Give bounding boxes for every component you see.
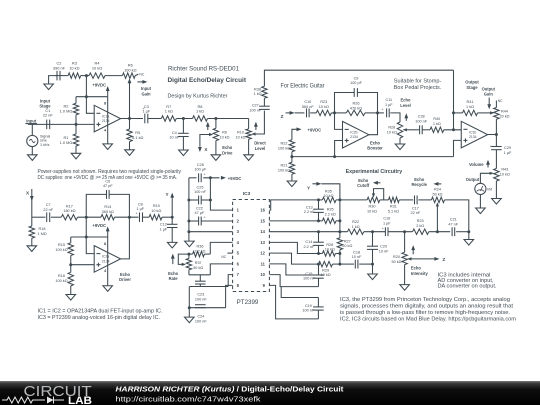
wire C7-R17 — [51, 216, 61, 218]
capacitor C21 — [451, 227, 453, 236]
svg-text:Recycle: Recycle — [411, 182, 427, 187]
potentiometer R9 Echo Drive — [215, 119, 217, 129]
svg-text:C9: C9 — [354, 76, 359, 80]
svg-text:1 µF: 1 µF — [504, 151, 512, 155]
svg-text:C27: C27 — [252, 104, 259, 108]
capacitor C16 — [384, 227, 386, 236]
svg-text:5.1 kΩ: 5.1 kΩ — [388, 210, 399, 214]
resistor R27 — [337, 238, 342, 250]
node C22 left — [187, 220, 190, 223]
svg-text:R30: R30 — [369, 205, 376, 209]
resistor R8 — [193, 116, 208, 121]
supply +9VDC echo booster — [292, 129, 297, 140]
op-amp IC1a — [94, 105, 120, 132]
wire IC1b out — [488, 134, 497, 136]
svg-text:Volume: Volume — [469, 162, 484, 167]
svg-text:100 kΩ: 100 kΩ — [55, 248, 67, 252]
svg-text:C26: C26 — [197, 163, 204, 167]
supply +9VDC IC1a — [107, 89, 109, 97]
wire IC2a minus feed — [86, 217, 94, 253]
potentiometer R37 Echo Rate — [186, 258, 191, 269]
wire R33-nodeA — [331, 112, 346, 114]
svg-text:C23: C23 — [197, 293, 204, 297]
svg-text:R22: R22 — [352, 220, 359, 224]
node IC2b plus junction — [333, 155, 336, 158]
capacitor C3 — [144, 114, 146, 124]
svg-text:1 µF: 1 µF — [383, 221, 391, 225]
svg-text:47 µF: 47 µF — [195, 211, 205, 215]
svg-text:R40: R40 — [433, 117, 440, 121]
svg-text:390 nF: 390 nF — [53, 66, 66, 71]
svg-text:180 kΩ: 180 kΩ — [63, 209, 75, 213]
resistor R4 — [89, 73, 105, 78]
svg-text:+: + — [381, 107, 383, 111]
wire R8-R10 — [208, 118, 249, 120]
annotation Echo Cutoff arrow — [375, 182, 380, 184]
svg-text:10 kΩ: 10 kΩ — [319, 105, 329, 109]
svg-text:13: 13 — [260, 240, 265, 245]
svg-text:R26: R26 — [353, 102, 360, 106]
svg-text:R36: R36 — [197, 245, 204, 249]
svg-text:+: + — [490, 144, 492, 148]
wire Z to C10 — [295, 112, 305, 114]
svg-text:Y: Y — [307, 185, 310, 190]
ground C23/C24 — [185, 317, 195, 323]
svg-text:Stage: Stage — [466, 85, 478, 90]
svg-text:Digital Echo/Delay Circuit: Digital Echo/Delay Circuit — [168, 77, 247, 84]
ground R21 — [287, 181, 297, 187]
resistor R29 — [319, 261, 333, 266]
voltmeter VM — [475, 183, 486, 194]
node IC1b minus junction — [452, 128, 455, 131]
wire C22 stubs — [189, 220, 199, 222]
wire railB 200-232 — [339, 200, 341, 238]
svg-text:10: 10 — [260, 272, 265, 277]
wire IC1a out — [121, 118, 143, 120]
wire pin12 hook — [269, 253, 318, 264]
svg-text:10 kΩ: 10 kΩ — [387, 131, 397, 135]
svg-text:C29: C29 — [504, 146, 511, 150]
node railA row221 — [317, 219, 320, 222]
resistor R16 — [68, 272, 73, 286]
svg-text:1 µF: 1 µF — [160, 227, 168, 231]
wire R41 to R44 wiper — [478, 112, 492, 114]
wire R37 bottom row — [189, 274, 210, 276]
wire IC2b out — [369, 113, 378, 135]
node C20 bottom — [371, 263, 374, 266]
svg-text:C18: C18 — [353, 250, 360, 254]
svg-text:10 nF: 10 nF — [169, 136, 179, 140]
ground R5 — [125, 150, 135, 156]
op-amp IC2a — [94, 246, 120, 273]
node railB row232 — [338, 230, 341, 233]
wire C27-R38 — [263, 98, 265, 106]
capacitor C23 — [199, 275, 201, 281]
footer bar — [0, 381, 540, 405]
svg-text:Experimental Circuitry: Experimental Circuitry — [346, 169, 403, 175]
svg-text:1 kΩ: 1 kΩ — [433, 122, 441, 126]
svg-text:Driver: Driver — [119, 277, 131, 282]
svg-text:C10: C10 — [304, 100, 311, 104]
svg-text:NC: NC — [498, 99, 503, 103]
svg-text:10 kΩ: 10 kΩ — [219, 135, 229, 139]
svg-text:+: + — [135, 211, 137, 215]
svg-text:C11: C11 — [385, 98, 392, 102]
resistor R22 — [289, 140, 294, 152]
wire R10 wiper to C27 — [255, 111, 265, 134]
wire pin15 row — [269, 220, 318, 222]
svg-text:Box Pedal Projects.: Box Pedal Projects. — [394, 85, 442, 91]
svg-text:2.2 kΩ: 2.2 kΩ — [194, 250, 205, 254]
wire pin16 hook — [269, 200, 318, 210]
node B echo booster — [376, 111, 379, 114]
ground R20 — [400, 285, 410, 291]
wire R14 right — [115, 216, 139, 218]
wire pin13 hook — [269, 242, 318, 253]
svg-text:Output: Output — [466, 177, 480, 182]
svg-text:R16: R16 — [58, 274, 65, 278]
svg-text:+: + — [204, 216, 206, 220]
wire R2 bias row — [76, 96, 108, 98]
potentiometer R20 Echo Intensity — [404, 232, 406, 253]
svg-text:Suitable for Stomp-: Suitable for Stomp- — [394, 78, 442, 84]
node R15/R16 junction — [69, 263, 72, 266]
resistor R38 — [262, 86, 267, 98]
svg-text:Gain: Gain — [141, 91, 151, 96]
svg-text:1.0 MΩ: 1.0 MΩ — [60, 108, 73, 113]
node Y junction — [171, 216, 174, 219]
svg-text:1 kΩ: 1 kΩ — [165, 109, 173, 114]
svg-text:Input: Input — [26, 119, 37, 124]
resistor R41 — [463, 110, 478, 115]
svg-text:+9VDC: +9VDC — [92, 82, 106, 87]
svg-text:IC1b: IC1b — [469, 130, 476, 134]
svg-text:IC2, IC3 circuits based on Mad: IC2, IC3 circuits based on Mad Blue Dela… — [340, 316, 516, 322]
svg-text:is passed through a low-pass f: is passed through a low-pass filter to r… — [340, 310, 510, 316]
wire C21 end — [456, 231, 469, 233]
wire input row — [28, 123, 94, 125]
svg-text:+: + — [382, 227, 384, 231]
node 5V junction — [209, 176, 212, 179]
annotation Output Gain arrow — [488, 98, 490, 106]
svg-text:IC2a: IC2a — [102, 255, 109, 259]
capacitor C22 — [198, 217, 200, 226]
wire pin8 step — [226, 285, 233, 307]
svg-text:IC1a: IC1a — [102, 114, 109, 118]
svg-text:10 kΩ: 10 kΩ — [323, 194, 333, 198]
svg-text:Booster: Booster — [367, 145, 383, 150]
node railB row221 — [338, 219, 341, 222]
svg-text:IC3, the PT3299 from Princeton: IC3, the PT3299 from Princeton Technolog… — [340, 297, 510, 303]
resistor R21 — [289, 162, 294, 174]
potentiometer R6 Input Gain — [122, 73, 135, 78]
svg-text:2.2 kΩ: 2.2 kΩ — [325, 212, 336, 216]
capacitor C25 — [198, 196, 200, 205]
svg-text:C20: C20 — [380, 245, 387, 249]
resistor R3 — [68, 73, 81, 78]
node railA row232 — [317, 230, 320, 233]
wire R6 NC stub — [135, 74, 138, 76]
capacitor C24 — [195, 304, 206, 306]
wire C8-R19 — [143, 216, 150, 218]
capacitor C7 — [46, 212, 48, 222]
capacitor C10 — [306, 108, 308, 117]
capacitor C13 — [318, 200, 320, 209]
svg-text:12: 12 — [260, 251, 265, 256]
resistor R25 — [322, 218, 336, 223]
svg-text:1 kΩ: 1 kΩ — [196, 109, 204, 114]
capacitor C4 — [182, 119, 184, 134]
wire row264 right — [340, 263, 354, 265]
wire R28 wiper to C28 — [403, 129, 419, 131]
svg-text:1 kΩ: 1 kΩ — [466, 105, 474, 109]
annotation Echo Recycle arrow — [436, 183, 441, 185]
svg-text:C12: C12 — [160, 223, 167, 227]
node railA row253 — [317, 252, 320, 255]
wire pin7 step — [228, 275, 232, 287]
resistor R14 — [101, 215, 115, 220]
annotation R10 direction arrow — [255, 124, 257, 130]
capacitor C1 — [46, 120, 48, 130]
svg-text:22 nF: 22 nF — [411, 211, 421, 215]
svg-text:C16: C16 — [383, 217, 390, 221]
ground IC2a — [103, 286, 113, 292]
svg-text:1 kΩ: 1 kΩ — [352, 225, 360, 229]
svg-text:R37: R37 — [195, 261, 202, 265]
svg-text:R24: R24 — [434, 188, 441, 192]
wire R40 to IC1b minus — [444, 129, 461, 131]
resistor R35 — [322, 197, 336, 202]
svg-text:PT2399: PT2399 — [237, 299, 259, 306]
wire R22-R21 — [291, 152, 293, 163]
capacitor C15 — [318, 264, 320, 275]
svg-text:DA converter on output.: DA converter on output. — [438, 284, 497, 290]
svg-text:1.0 MΩ: 1.0 MΩ — [60, 140, 73, 145]
svg-text:R25: R25 — [327, 208, 334, 212]
annotation R20 direction arrow — [412, 248, 414, 254]
svg-text:2134: 2134 — [350, 135, 358, 139]
ground C12 — [167, 242, 177, 248]
svg-text:NC: NC — [139, 72, 144, 76]
ground VM — [476, 208, 486, 214]
ground R1 — [71, 153, 81, 159]
resistor R18 — [31, 217, 33, 226]
svg-text:C6: C6 — [105, 179, 110, 183]
wire C17-R24 — [418, 199, 431, 201]
ground C20 — [372, 264, 374, 274]
svg-text:560 nF: 560 nF — [302, 105, 315, 109]
wire 5V rail right to pin1 — [210, 178, 232, 210]
capacitor C20 — [372, 232, 374, 247]
node R41 junction — [452, 111, 455, 114]
resistor R7 — [161, 116, 176, 121]
potentiometer R44 Output Gain — [494, 108, 499, 120]
svg-text:R23: R23 — [417, 219, 424, 223]
wire R43 wiper to output — [480, 173, 490, 183]
svg-text:R44: R44 — [501, 110, 508, 114]
capacitor C14 — [318, 232, 320, 243]
svg-text:C25: C25 — [197, 185, 204, 189]
svg-text:15: 15 — [260, 218, 265, 223]
annotation Echo Rate arrow — [172, 258, 174, 264]
svg-text:+: + — [203, 172, 205, 176]
svg-text:47 nF: 47 nF — [448, 223, 458, 227]
svg-text:Level: Level — [255, 146, 265, 151]
wire Y to railB — [321, 184, 340, 200]
capacitor C26 — [198, 173, 200, 182]
wire guitar box right edge — [453, 70, 455, 130]
node C20 top — [371, 230, 374, 233]
wire C16-R23 — [388, 231, 412, 233]
wire pin14 row — [269, 231, 347, 233]
svg-text:+9VDC: +9VDC — [308, 128, 322, 133]
svg-text:C7: C7 — [46, 203, 51, 207]
footer logo resistor-diode doodle — [2, 397, 45, 403]
annotation R9 direction arrow — [207, 124, 209, 130]
node R20 top — [403, 230, 406, 233]
annotation Input Gain arrow — [137, 81, 144, 83]
svg-text:100 nF: 100 nF — [195, 320, 208, 324]
node Y flag upper — [171, 197, 173, 217]
svg-text:1 MΩ: 1 MΩ — [37, 232, 46, 236]
svg-text:R23: R23 — [320, 100, 327, 104]
resistor R28f — [322, 251, 335, 256]
wire R23-C21 — [429, 231, 450, 233]
svg-text:2134: 2134 — [102, 259, 110, 263]
node row232 end — [467, 230, 470, 233]
wire R30-R31 — [380, 199, 389, 201]
ground source — [28, 155, 38, 161]
wire pin10 hook — [269, 275, 318, 287]
svg-text:C14: C14 — [305, 240, 312, 244]
svg-text:50 kΩ: 50 kΩ — [193, 266, 203, 270]
potentiometer R28 Echo Level — [397, 122, 402, 138]
svg-text:47 pF: 47 pF — [103, 184, 113, 188]
wire bias row 2 — [71, 236, 108, 238]
wire IC2b plus — [335, 141, 343, 157]
svg-text:Cutoff: Cutoff — [357, 183, 370, 188]
capacitor C12 — [171, 217, 173, 224]
svg-text:100 kΩ: 100 kΩ — [278, 169, 290, 173]
node bias cross 2 — [85, 236, 88, 239]
svg-text:100 kΩ: 100 kΩ — [278, 147, 290, 151]
svg-text:R17: R17 — [66, 204, 73, 208]
IC3 PT2399 chip body — [233, 200, 270, 292]
svg-text:For Electric Guitar: For Electric Guitar — [281, 83, 325, 89]
svg-text:R10: R10 — [237, 131, 244, 135]
svg-text:360 kΩ: 360 kΩ — [102, 210, 114, 214]
capacitor C29 — [495, 135, 497, 147]
svg-text:Intensity: Intensity — [411, 271, 429, 276]
svg-text:10 kΩ: 10 kΩ — [235, 135, 245, 139]
capacitor C11 — [386, 108, 388, 117]
resistor R26 — [346, 110, 365, 115]
svg-text:Y: Y — [166, 192, 169, 197]
ground R28 — [395, 144, 405, 150]
wire bias row to IC1b — [292, 156, 454, 158]
svg-text:10 kΩ: 10 kΩ — [325, 248, 335, 252]
svg-text:R15: R15 — [58, 243, 65, 247]
svg-text:100 nF: 100 nF — [303, 277, 316, 281]
node R24 wiper bottom — [436, 230, 439, 233]
svg-text:10 kΩ: 10 kΩ — [151, 209, 161, 213]
svg-text:signals, processes them digita: signals, processes them digitally, and o… — [340, 303, 514, 309]
wire IC2a out — [121, 217, 130, 259]
wire pin3 row — [189, 231, 233, 233]
svg-text:2.2 nF: 2.2 nF — [304, 245, 315, 249]
capacitor C17 — [414, 195, 416, 204]
node IC1b out — [495, 133, 498, 136]
node railB row200 — [338, 198, 341, 201]
svg-text:1 µF: 1 µF — [385, 103, 393, 107]
ground R43 — [492, 199, 502, 205]
capacitor C2 — [56, 71, 58, 81]
node R9 top — [214, 117, 217, 120]
pin 5 NC stub — [227, 252, 232, 254]
svg-text:VM: VM — [487, 188, 492, 192]
resistor R23f — [413, 229, 429, 234]
svg-text:10 kΩ: 10 kΩ — [69, 66, 79, 71]
svg-text:C21: C21 — [450, 218, 457, 222]
svg-text:Power-supplies not shown. Requ: Power-supplies not shown. Requires two r… — [38, 169, 182, 175]
wire R22f-C16 — [364, 231, 385, 233]
node C24 junction — [188, 306, 191, 309]
resistor R40 — [430, 127, 444, 132]
ground R18 — [27, 246, 37, 252]
ground C4 — [179, 150, 189, 156]
svg-text:R28: R28 — [326, 243, 333, 247]
resistor R17 — [61, 215, 77, 220]
svg-text:2134: 2134 — [102, 119, 110, 123]
svg-text:100 nF: 100 nF — [302, 309, 315, 313]
capacitor C27 — [259, 105, 270, 107]
svg-text:10 nF: 10 nF — [379, 250, 389, 254]
wire R7-R8 — [176, 118, 192, 120]
capacitor C28 — [419, 125, 421, 134]
svg-text:C8: C8 — [138, 202, 143, 206]
annotation Volume arrow — [487, 162, 489, 167]
svg-text:C17: C17 — [412, 206, 419, 210]
ground R10 — [244, 155, 254, 161]
svg-text:100 nF: 100 nF — [249, 109, 262, 113]
annotation Echo Level arrow — [405, 116, 407, 121]
svg-text:470 kΩ: 470 kΩ — [350, 106, 362, 110]
ground R16 — [66, 295, 76, 301]
wire 5V rail top — [189, 177, 197, 179]
svg-text:22 nF: 22 nF — [43, 113, 54, 118]
resistor R36 — [193, 251, 205, 256]
pin 8 IC2a — [107, 237, 109, 286]
svg-text:R19: R19 — [153, 204, 160, 208]
ground C2 — [44, 84, 54, 90]
svg-text:C22: C22 — [196, 206, 203, 210]
svg-text:2.2 nF: 2.2 nF — [304, 210, 315, 214]
svg-text:R35: R35 — [325, 189, 332, 193]
resistor R5 — [127, 129, 132, 142]
node bias cross — [85, 95, 88, 98]
svg-text:100 kΩ: 100 kΩ — [55, 279, 67, 283]
svg-text:R20: R20 — [393, 255, 400, 259]
svg-text:IC2b: IC2b — [350, 131, 357, 135]
svg-text:Richter Sound RS-DED01: Richter Sound RS-DED01 — [168, 66, 239, 73]
svg-text:2134: 2134 — [469, 135, 477, 139]
svg-text:R31: R31 — [390, 205, 397, 209]
wire IC1b plus — [454, 140, 462, 156]
node C25 right — [209, 199, 212, 202]
svg-text:C13: C13 — [306, 205, 313, 209]
svg-text:Z: Z — [281, 114, 284, 119]
svg-text:50 kΩ: 50 kΩ — [391, 260, 401, 264]
